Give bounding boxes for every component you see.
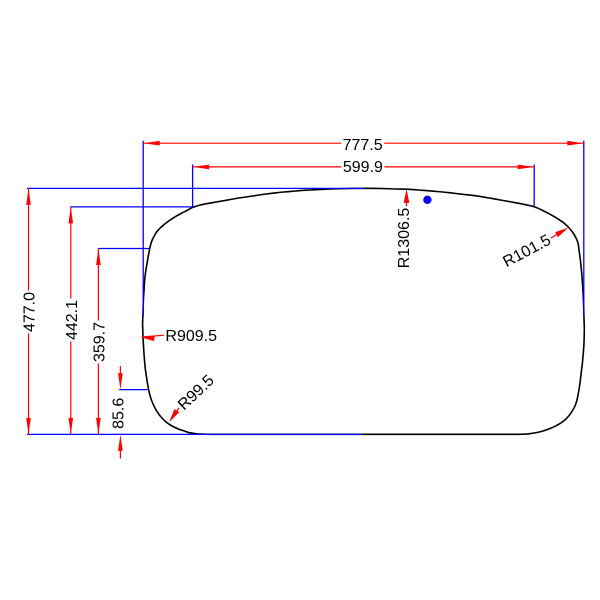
svg-text:777.5: 777.5 bbox=[343, 137, 383, 154]
extension line 599.9 left vertical bbox=[192, 165, 194, 208]
outline of mirror-glass shape bbox=[143, 188, 585, 434]
svg-text:85.6: 85.6 bbox=[111, 398, 128, 429]
dimension line 477.0 bbox=[28, 188, 30, 434]
label 477.0 bbox=[21, 290, 39, 333]
extension line 359.7 bbox=[98, 248, 150, 250]
label 359.7 bbox=[91, 320, 109, 363]
dimension line 599.9 bbox=[193, 166, 535, 168]
dimension line 442.1 bbox=[70, 207, 72, 435]
extension line bottom baseline bbox=[27, 433, 362, 435]
svg-text:R909.5: R909.5 bbox=[165, 328, 217, 345]
label R99.5 bbox=[173, 371, 218, 415]
svg-text:359.7: 359.7 bbox=[91, 322, 108, 362]
leader R99.5 bbox=[171, 404, 182, 420]
label 85.6 bbox=[110, 396, 128, 430]
svg-text:R99.5: R99.5 bbox=[175, 372, 218, 414]
label R1306.5 bbox=[395, 206, 413, 269]
svg-text:R101.5: R101.5 bbox=[500, 232, 554, 271]
label 599.9 bbox=[341, 158, 384, 176]
label R101.5 bbox=[499, 231, 556, 272]
extension line 777.5 right vertical bbox=[583, 141, 585, 318]
leader R909.5 bbox=[143, 335, 165, 337]
svg-text:599.9: 599.9 bbox=[343, 159, 383, 176]
blue reference point marker bbox=[423, 196, 431, 204]
leader R1306.5 bbox=[405, 194, 407, 209]
svg-text:R1306.5: R1306.5 bbox=[396, 208, 413, 269]
svg-text:442.1: 442.1 bbox=[64, 300, 81, 340]
extension line 599.9 right vertical bbox=[533, 165, 535, 207]
svg-text:477.0: 477.0 bbox=[21, 292, 38, 332]
label 442.1 bbox=[63, 298, 81, 341]
extension line top tangent bbox=[27, 187, 364, 189]
extension line 777.5 left vertical bbox=[142, 141, 144, 316]
label R909.5 bbox=[164, 328, 219, 346]
extension line 442.1 bbox=[70, 206, 192, 208]
dimension line 777.5 bbox=[143, 142, 584, 144]
leader R101.5 bbox=[549, 232, 562, 240]
dimension line 359.7 bbox=[97, 249, 99, 435]
label 777.5 bbox=[341, 136, 384, 154]
extension line 85.6 bbox=[119, 389, 148, 391]
dimension 85.6 outside arrows bbox=[119, 366, 121, 378]
